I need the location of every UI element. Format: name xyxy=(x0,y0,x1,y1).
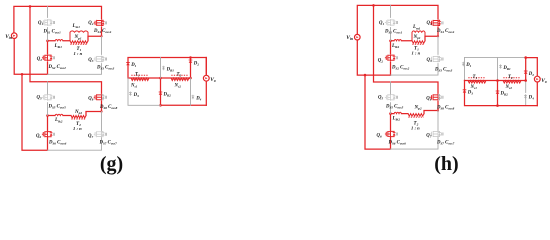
wire: node B to Llk2 to Np2 (h) xyxy=(391,113,409,115)
winding Np1 xyxy=(70,41,88,45)
wire: Vin+ to top rail to Q4 drain xyxy=(14,6,102,33)
node B xyxy=(46,114,49,117)
svg-text:1 : n: 1 : n xyxy=(412,50,421,55)
svg-text:T2: T2 xyxy=(508,75,513,80)
junction: Q8 source / Q7 drain xyxy=(100,110,102,112)
svg-text:T2: T2 xyxy=(177,72,182,77)
svg-text:DS4 Coss4: DS4 Coss4 xyxy=(436,29,455,34)
svg-text:1 : n: 1 : n xyxy=(73,126,82,131)
junction: return tap (h) xyxy=(364,74,367,77)
svg-text:DR2: DR2 xyxy=(163,93,172,98)
wire: Q5 leg (inactive) (h) xyxy=(390,82,392,114)
svg-text:Llk2: Llk2 xyxy=(392,117,401,122)
diode D1 xyxy=(126,63,130,66)
wire: node B to Q6 drain (h) xyxy=(390,114,392,131)
wire: node A to Q2 drain xyxy=(47,41,49,54)
svg-text:DS2 Coss2: DS2 Coss2 xyxy=(48,65,67,70)
junction: mid rail / D2 leg (h) xyxy=(524,79,527,82)
svg-text:T1: T1 xyxy=(135,72,140,77)
svg-text:DS7 Coss7: DS7 Coss7 xyxy=(436,140,455,145)
inductor Llk2 (h) xyxy=(394,112,402,113)
svg-text:D1: D1 xyxy=(465,63,471,68)
wire: DR2 leg and bottom rail xyxy=(161,78,207,105)
diode D3 (inactive icon) xyxy=(129,92,132,96)
diode DR2 (h) xyxy=(496,91,500,94)
svg-text:Lm1: Lm1 xyxy=(72,24,81,29)
transistor Q1 xyxy=(42,19,55,26)
source Vo xyxy=(203,75,209,81)
svg-text:Q3: Q3 xyxy=(427,58,432,63)
wire: Q3 leg and rail (inactive) xyxy=(48,36,102,74)
svg-text:Np1: Np1 xyxy=(413,35,421,40)
svg-text:D4: D4 xyxy=(528,96,534,101)
svg-text:Llk1: Llk1 xyxy=(391,44,400,49)
svg-text:DS1 Coss1: DS1 Coss1 xyxy=(43,29,62,34)
transistor Q5 xyxy=(42,94,55,101)
svg-text:D3: D3 xyxy=(133,93,139,98)
svg-text:Np1: Np1 xyxy=(74,35,82,40)
wire: input tap down to lower-bridge rail to Q8 drain (h) xyxy=(374,5,439,93)
winding Ns1 (h) xyxy=(468,78,486,83)
source Vo (h) xyxy=(534,76,540,82)
transistor Q6 (h) xyxy=(385,131,398,138)
junction: return tap xyxy=(21,73,24,76)
diode DR2 xyxy=(159,92,163,95)
svg-text:D1: D1 xyxy=(130,63,136,68)
wire: D3 leg (inactive) xyxy=(128,78,161,105)
svg-text:Q8: Q8 xyxy=(88,96,93,101)
svg-text:DS6 Coss6: DS6 Coss6 xyxy=(48,141,67,146)
svg-text:DR2: DR2 xyxy=(500,92,509,97)
junction: top rail / D2 leg (h) xyxy=(524,56,527,59)
junction: top rail / D2 leg xyxy=(189,56,192,59)
svg-text:1 : n: 1 : n xyxy=(74,51,83,56)
junction: Q8 source / Q7 drain (h) xyxy=(437,109,439,111)
wire: Vin- to bottom rail of top bridge (h) xyxy=(357,40,390,75)
svg-text:(g): (g) xyxy=(100,153,123,175)
junction: mid rail / DR leg (h) xyxy=(496,79,499,82)
svg-text:DS5 Coss5: DS5 Coss5 xyxy=(385,104,404,109)
transistor Q8 (h) xyxy=(430,94,443,101)
svg-text:Q6: Q6 xyxy=(36,134,41,139)
transistor Q7 xyxy=(94,131,107,138)
wire: Q3 leg and rail (inactive) (h) xyxy=(391,36,439,75)
svg-text:Ns2: Ns2 xyxy=(505,85,513,90)
wire: Q1 leg (inactive) (h) xyxy=(390,5,392,40)
wire: Q7 leg and rail (inactive) xyxy=(48,112,102,151)
diode D2 xyxy=(189,60,193,63)
winding Np2 xyxy=(71,116,86,120)
svg-text:1 : n: 1 : n xyxy=(411,126,420,131)
wire: Q5 leg (inactive) xyxy=(47,82,49,116)
junction: bottom rail / DR2 leg xyxy=(159,104,162,107)
wire: secondary mid wire (h) xyxy=(465,80,526,82)
wire: D2 leg (h) xyxy=(525,58,527,81)
svg-text:Q7: Q7 xyxy=(88,134,93,139)
wire: DR1 leg (inactive) (h) xyxy=(497,58,499,81)
winding Ns2 (h) xyxy=(503,78,521,83)
wire: DR2 leg (h) xyxy=(497,81,499,106)
svg-text:Q3: Q3 xyxy=(88,58,93,63)
inductor Lm1 (h) (magnetizing) xyxy=(412,31,425,41)
svg-text:D2: D2 xyxy=(528,72,534,77)
wire: return rail down to lower bridge bottom rail, Q6 source xyxy=(22,74,48,150)
svg-text:DS4 Coss4: DS4 Coss4 xyxy=(93,29,112,34)
junction: top rail tap (h) xyxy=(372,4,375,7)
inductor Lm1 (magnetizing) xyxy=(70,31,88,41)
wire: Q8 source to Np2 right end xyxy=(86,101,102,115)
svg-text:Q2: Q2 xyxy=(378,58,383,63)
wire: Q2 source xyxy=(47,62,49,74)
svg-text:DS3 Coss3: DS3 Coss3 xyxy=(434,68,453,73)
inductor Llk1 (h) xyxy=(394,40,402,41)
winding Ns1 xyxy=(131,75,149,80)
diode D4 (h) (inactive icon) xyxy=(524,94,527,98)
wire: node B to Q6 drain xyxy=(47,116,49,131)
svg-text:DS7 Coss7: DS7 Coss7 xyxy=(99,141,118,146)
svg-text:Q1: Q1 xyxy=(38,21,43,26)
diode DR1 (h) (inactive icon) xyxy=(499,64,502,68)
source Vin xyxy=(11,33,17,39)
svg-text:Q6: Q6 xyxy=(377,134,382,139)
wire: secondary top rail (inactive part) (h) xyxy=(465,57,526,59)
junction: Q4 source / Q3 drain xyxy=(100,35,102,37)
svg-text:DS8 Coss8: DS8 Coss8 xyxy=(436,105,455,110)
wire: output branch (h) xyxy=(526,58,538,106)
source Vin (h) xyxy=(355,34,361,40)
transistor Q1 (h) xyxy=(385,19,398,26)
transistor Q3 xyxy=(94,56,107,63)
transistor Q7 (h) xyxy=(430,131,443,138)
node B (h) xyxy=(389,112,392,115)
wire: Vin+ to top rail to Q4 drain (h) xyxy=(357,5,438,34)
svg-text:DS3 Coss3: DS3 Coss3 xyxy=(96,66,115,71)
svg-text:DS8 Coss8: DS8 Coss8 xyxy=(99,105,118,110)
junction: Q4 source / Q3 drain (h) xyxy=(437,35,439,37)
transistor Q8 xyxy=(94,94,107,101)
svg-text:DS1 Coss1: DS1 Coss1 xyxy=(384,29,403,34)
wire: D4 leg upper (inactive) (h) xyxy=(525,78,527,93)
svg-text:Q4: Q4 xyxy=(427,21,432,26)
diode DR1 (inactive icon) xyxy=(162,66,165,70)
transistor Q2 (h) xyxy=(385,54,398,61)
inductor Llk2 xyxy=(55,114,63,115)
wire: DR1 leg (inactive) xyxy=(160,58,162,79)
wire: node B to Llk2 to Np2 xyxy=(48,115,72,117)
wire: secondary top rail xyxy=(128,58,206,79)
wire: D4 leg (inactive) xyxy=(190,78,192,105)
svg-text:Q4: Q4 xyxy=(88,21,93,26)
wire: Q7 leg and rail (inactive) (h) xyxy=(391,111,439,150)
wire: node A to Q2 drain (h) xyxy=(390,41,392,54)
svg-text:Llk2: Llk2 xyxy=(54,118,63,123)
wire: D4 leg (inactive) (h) xyxy=(525,95,527,106)
transistor Q4 xyxy=(94,20,107,27)
svg-text:Ns1: Ns1 xyxy=(130,84,138,89)
svg-text:Q7: Q7 xyxy=(426,134,431,139)
svg-text:D4: D4 xyxy=(195,96,201,101)
diode D4 (inactive icon) xyxy=(192,95,195,99)
svg-text:Q2: Q2 xyxy=(37,57,42,62)
junction: mid rail / DR leg xyxy=(159,77,162,80)
svg-text:DR1: DR1 xyxy=(502,66,511,71)
svg-text:DS6 Coss6: DS6 Coss6 xyxy=(388,140,407,145)
svg-text:Ns1: Ns1 xyxy=(470,85,478,90)
transistor Q6 xyxy=(42,131,55,138)
wire: node A to Llk1 to Np1 (h) xyxy=(391,40,413,42)
transistor Q4 (h) xyxy=(430,20,443,27)
svg-text:Q8: Q8 xyxy=(426,96,431,101)
wire: Q4 source to Np1 right end (h) xyxy=(425,27,438,41)
svg-text:DS2 Coss2: DS2 Coss2 xyxy=(391,65,410,70)
wire: Q1 leg (inactive) xyxy=(47,6,49,40)
junction: mid rail / D2 leg xyxy=(189,77,192,80)
wire: output branch xyxy=(205,58,207,106)
svg-text:D2: D2 xyxy=(193,62,199,67)
svg-text:Q5: Q5 xyxy=(37,96,42,101)
wire: input tap down to lower-bridge rail to Q8 drain xyxy=(30,6,102,93)
wire: D3 leg and bottom rail (h) xyxy=(465,81,538,106)
wire: return rail to lower bridge bottom rail, Q6 source (h) xyxy=(365,75,391,149)
junction: top rail tap xyxy=(29,5,32,8)
svg-text:Llk1: Llk1 xyxy=(54,44,63,49)
transistor Q2 xyxy=(42,54,55,61)
wire: Vin- to bottom rail of top bridge xyxy=(14,39,47,75)
svg-text:(h): (h) xyxy=(434,153,458,175)
junction: bottom rail / DR2 leg (h) xyxy=(496,104,499,107)
node A xyxy=(46,40,49,43)
svg-text:DS5 Coss5: DS5 Coss5 xyxy=(48,104,67,109)
wire: D1 leg (inactive) (h) xyxy=(464,58,466,81)
winding Ns2 xyxy=(171,75,189,80)
diode D3 (h) xyxy=(463,90,467,93)
svg-text:Np2: Np2 xyxy=(74,110,82,115)
wire: Q8 source to Np2 right end (h) xyxy=(424,101,438,113)
diode D1 (h) (inactive icon) xyxy=(462,62,465,66)
transistor Q3 (h) xyxy=(430,56,443,63)
wire: Q4 source to Np1 right end xyxy=(88,27,102,41)
wire: D2 leg xyxy=(190,58,192,79)
transistor Q5 (h) xyxy=(385,94,398,101)
svg-text:Q5: Q5 xyxy=(378,96,383,101)
svg-text:Q1: Q1 xyxy=(379,21,384,26)
svg-text:Ns2: Ns2 xyxy=(174,84,182,89)
svg-text:Lm1: Lm1 xyxy=(412,25,421,30)
node A (h) xyxy=(389,40,392,43)
svg-text:DR1: DR1 xyxy=(166,67,175,72)
wire: secondary mid wire xyxy=(128,77,191,79)
wire: node A to Llk1 to Np1 xyxy=(48,40,71,42)
svg-text:T1: T1 xyxy=(473,75,478,80)
inductor Llk1 xyxy=(55,40,63,41)
svg-text:D3: D3 xyxy=(467,91,473,96)
diode D2 (h) xyxy=(524,71,528,74)
winding Np2 (h) xyxy=(408,114,424,118)
svg-text:Np2: Np2 xyxy=(414,106,422,111)
wire: Q2 source (h) xyxy=(390,62,392,75)
winding Np1 (h) xyxy=(412,41,425,45)
